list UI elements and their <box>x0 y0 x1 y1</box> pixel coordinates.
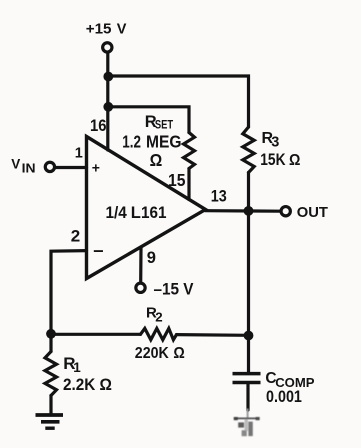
svg-text:Ω: Ω <box>173 344 184 362</box>
svg-text:2.2K: 2.2K <box>63 375 96 394</box>
svg-text:Ω: Ω <box>150 150 163 170</box>
svg-text:161: 161 <box>141 204 167 222</box>
svg-text:2: 2 <box>155 309 162 324</box>
svg-text:–: – <box>93 239 103 260</box>
svg-text:–15 V: –15 V <box>154 281 194 299</box>
svg-text:1.2: 1.2 <box>122 133 141 152</box>
svg-text:15: 15 <box>168 170 186 190</box>
svg-text:V: V <box>117 22 127 38</box>
svg-text:0.001: 0.001 <box>266 388 302 406</box>
svg-text:Ω: Ω <box>100 375 112 394</box>
svg-text:220K: 220K <box>135 344 169 362</box>
svg-text:OUT: OUT <box>297 205 328 221</box>
svg-text:3: 3 <box>271 135 279 151</box>
svg-text:MEG: MEG <box>146 132 181 152</box>
svg-text:16: 16 <box>90 117 107 135</box>
svg-text:15K: 15K <box>260 151 285 169</box>
svg-text:V: V <box>11 156 20 171</box>
svg-text:+15: +15 <box>86 22 112 38</box>
svg-text:L: L <box>131 204 141 222</box>
svg-text:2: 2 <box>71 226 80 245</box>
svg-text:IN: IN <box>22 161 36 175</box>
svg-text:SET: SET <box>155 119 174 132</box>
svg-text:13: 13 <box>211 187 227 205</box>
svg-text:Ω: Ω <box>289 151 300 169</box>
svg-text:9: 9 <box>147 249 156 267</box>
svg-text:1: 1 <box>73 360 81 375</box>
svg-text:+: + <box>92 160 100 176</box>
svg-text:1: 1 <box>75 146 83 162</box>
svg-text:1/4: 1/4 <box>106 204 127 222</box>
